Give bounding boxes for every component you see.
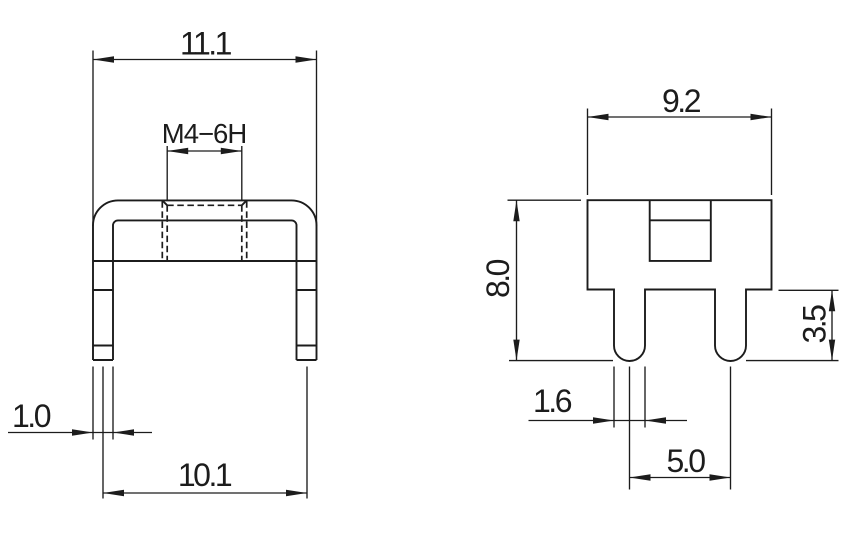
- front view outer profile: [93, 200, 317, 360]
- front view right leg tangent edge: [297, 345, 317, 347]
- dimension 1.6: [529, 367, 688, 490]
- thread hole hidden lines: [162, 201, 246, 261]
- dimension M4-6H: [167, 146, 242, 200]
- dimension 9.2: [588, 109, 772, 196]
- dimension 1.0: [8, 367, 152, 499]
- front view inner profile: [113, 220, 297, 360]
- side view thread notch: [650, 200, 711, 261]
- front view left leg shoulder edge: [93, 289, 113, 291]
- dimension 5.0: [630, 367, 731, 490]
- side view notch inner edge: [650, 219, 711, 221]
- front view left leg tangent edge: [93, 345, 113, 347]
- svg-text:8.0: 8.0: [480, 259, 516, 298]
- thread countersink chamfer right: [242, 200, 247, 205]
- svg-text:10.1: 10.1: [178, 457, 232, 493]
- dimension 10.1: [103, 367, 307, 499]
- svg-text:3.5: 3.5: [797, 305, 833, 344]
- dimension 3.5: [746, 290, 839, 360]
- front view right leg shoulder edge: [297, 289, 317, 291]
- dimension 11.1: [93, 51, 317, 227]
- svg-text:1.0: 1.0: [12, 398, 51, 434]
- dimension 8.0: [508, 200, 614, 360]
- svg-text:5.0: 5.0: [667, 443, 706, 479]
- front view bend line: [93, 260, 317, 262]
- svg-text:M4−6H: M4−6H: [162, 118, 246, 149]
- front view left leg bottom edge: [93, 359, 113, 361]
- front view right leg bottom edge: [297, 359, 317, 361]
- side view body outline: [588, 200, 772, 361]
- thread countersink chamfer left: [162, 200, 167, 205]
- svg-text:1.6: 1.6: [533, 383, 572, 419]
- svg-text:11.1: 11.1: [180, 26, 232, 62]
- svg-text:9.2: 9.2: [662, 83, 701, 119]
